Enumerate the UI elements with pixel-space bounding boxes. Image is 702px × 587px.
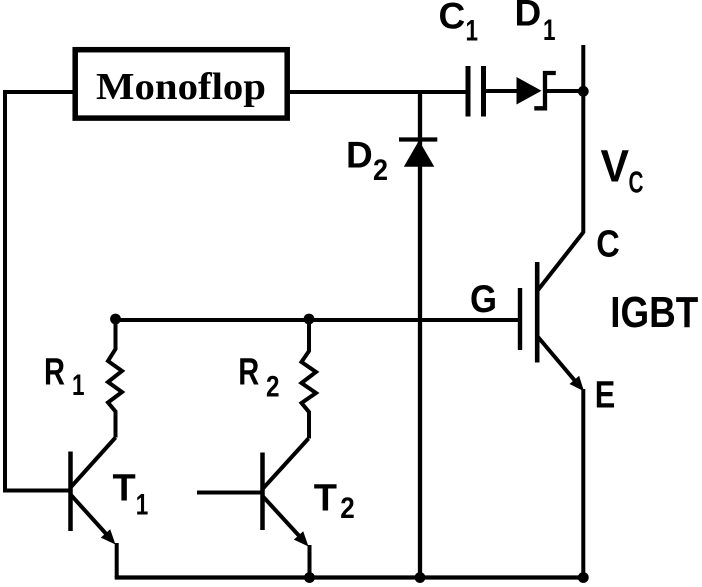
- label C1: [439, 0, 479, 47]
- label D1: [515, 0, 556, 47]
- node at D1 output / Vc rail: [578, 86, 589, 97]
- svg-text:Monoflop: Monoflop: [96, 66, 266, 108]
- node at R2 top: [304, 314, 315, 325]
- svg-text:C: C: [439, 0, 466, 36]
- wire T2 emitter down to bottom rail: [308, 545, 312, 578]
- node bottom D2 branch: [415, 572, 426, 583]
- resistor R1: [108, 320, 122, 438]
- label T2: [314, 477, 355, 525]
- svg-text:1: 1: [543, 14, 556, 47]
- svg-text:C: C: [629, 165, 644, 200]
- svg-text:T: T: [113, 467, 136, 509]
- transistor T1: [3, 438, 116, 545]
- svg-text:R: R: [238, 351, 259, 393]
- svg-text:2: 2: [340, 492, 355, 525]
- svg-text:V: V: [601, 141, 630, 192]
- svg-text:G: G: [470, 278, 497, 321]
- resistor R2: [302, 320, 317, 439]
- wire D2 branch vertical (top rail to bottom rail): [418, 92, 422, 578]
- wire monoflop output to C1: [290, 90, 467, 94]
- svg-text:T: T: [314, 477, 337, 519]
- wire gate horizontal from R1 node to IGBT gate: [116, 318, 519, 322]
- wire C1 to D1: [486, 89, 519, 93]
- svg-text:IGBT: IGBT: [610, 288, 698, 337]
- IGBT U1: [520, 232, 584, 391]
- svg-text:E: E: [595, 374, 616, 416]
- node bottom T2 emitter: [304, 572, 315, 583]
- wire left vertical from monoflop input down to T1 base: [3, 90, 7, 491]
- wire D1 to node: [547, 89, 584, 93]
- wire IGBT emitter down to bottom rail: [581, 389, 585, 578]
- wire T1 emitter down to bottom rail: [115, 543, 119, 578]
- svg-text:D: D: [515, 0, 542, 34]
- node at R1 top: [110, 314, 121, 325]
- svg-text:D: D: [346, 135, 373, 176]
- label D2: [346, 135, 388, 188]
- label R1: [44, 351, 85, 402]
- wire node down to IGBT collector: [581, 91, 585, 233]
- capacitor C1: [468, 66, 484, 117]
- wire Vc stub up: [581, 45, 585, 92]
- label Vc: [601, 141, 644, 200]
- diode D2: [399, 140, 437, 167]
- node bottom IGBT emitter: [578, 572, 589, 583]
- transistor T2: [197, 439, 309, 547]
- svg-text:R: R: [44, 351, 65, 393]
- svg-text:C: C: [596, 224, 620, 266]
- wire bottom rail: [115, 575, 586, 579]
- wire monoflop input horizontal: [3, 90, 73, 94]
- svg-text:1: 1: [466, 14, 479, 47]
- svg-text:2: 2: [373, 154, 388, 187]
- svg-text:1: 1: [72, 369, 85, 402]
- svg-text:1: 1: [136, 489, 149, 522]
- diode D1 (zener): [517, 73, 556, 108]
- svg-text:2: 2: [266, 370, 280, 403]
- label R2: [238, 351, 279, 403]
- label T1: [113, 467, 149, 521]
- block Monoflop: [75, 50, 287, 118]
